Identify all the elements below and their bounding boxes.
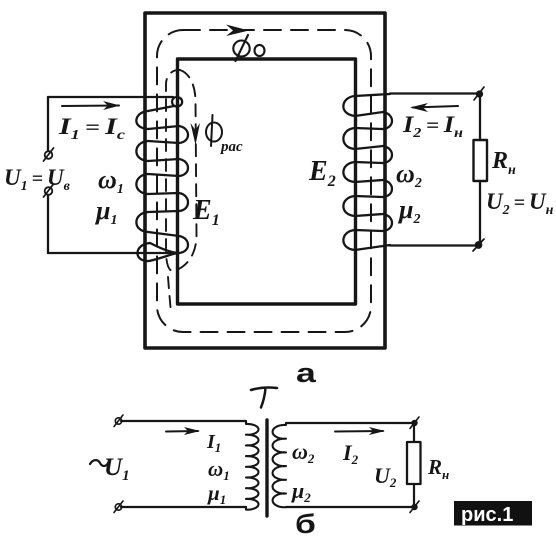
secondary coil: [273, 423, 286, 507]
terminal bottom: [44, 184, 54, 197]
wire: left bottom: [48, 252, 178, 254]
corner dot bottom right: [473, 239, 484, 251]
leakage flux phi_ras dashed loop: [166, 70, 197, 271]
resistor RH: [474, 140, 488, 181]
primary coil: [246, 421, 258, 510]
wire: left vertical lower: [47, 196, 49, 253]
arrow I1 bottom fig: [166, 427, 200, 435]
corner dot top right: [474, 87, 484, 100]
wire: left top: [48, 96, 173, 98]
wire: left vertical upper: [47, 97, 49, 150]
terminal left bottom: [114, 501, 123, 513]
core inner window: [178, 59, 356, 304]
phi_ras label: [206, 115, 222, 146]
phi_ras arrow (down): [191, 123, 201, 145]
resistor RH bottom fig: [413, 425, 415, 442]
terminal left top: [114, 415, 123, 427]
arrow I2 bottom fig: [335, 427, 385, 435]
core bar: [265, 420, 268, 516]
wire: top left: [121, 420, 246, 422]
phi0 label: [233, 35, 264, 61]
terminal right top: [410, 417, 419, 429]
svg-text:а: а: [296, 357, 316, 388]
svg-text:I2 = Iн: I2 = Iн: [402, 112, 463, 141]
ris.1 black label box: [454, 501, 532, 526]
flux phi0 dashed loop: [157, 30, 371, 332]
secondary winding W2 on right limb: [343, 94, 392, 250]
wire: right bottom: [390, 244, 477, 246]
labels bottom figure: [104, 431, 449, 507]
wire: top right: [286, 422, 414, 424]
arrow I1: [62, 101, 120, 110]
svg-text:рас: рас: [219, 139, 243, 155]
arrow I2 (left): [410, 103, 458, 112]
wire: right top: [390, 92, 479, 94]
wire: bottom left: [121, 506, 246, 508]
primary winding W1 on left limb: [136, 97, 188, 261]
svg-text:б: б: [295, 509, 316, 535]
svg-text:U2 = Uн: U2 = Uн: [486, 189, 554, 218]
stray dashed flux segment below loop: [168, 277, 171, 313]
tilde AC source: [90, 460, 108, 466]
terminal top: [44, 148, 54, 161]
svg-text:U1 = Uв: U1 = Uв: [4, 165, 71, 194]
label T (hand-drawn): [251, 388, 277, 408]
core outer rectangle: [145, 13, 385, 348]
flux phi0 arrow: [226, 25, 249, 37]
terminal right bottom: [410, 501, 419, 513]
svg-text:рис.1: рис.1: [461, 504, 513, 526]
wire: right vertical lower: [479, 181, 481, 245]
wire: bottom right: [286, 506, 414, 508]
svg-text:I1 = Iс: I1 = Iс: [58, 114, 126, 143]
wire: right vertical upper: [479, 94, 481, 140]
